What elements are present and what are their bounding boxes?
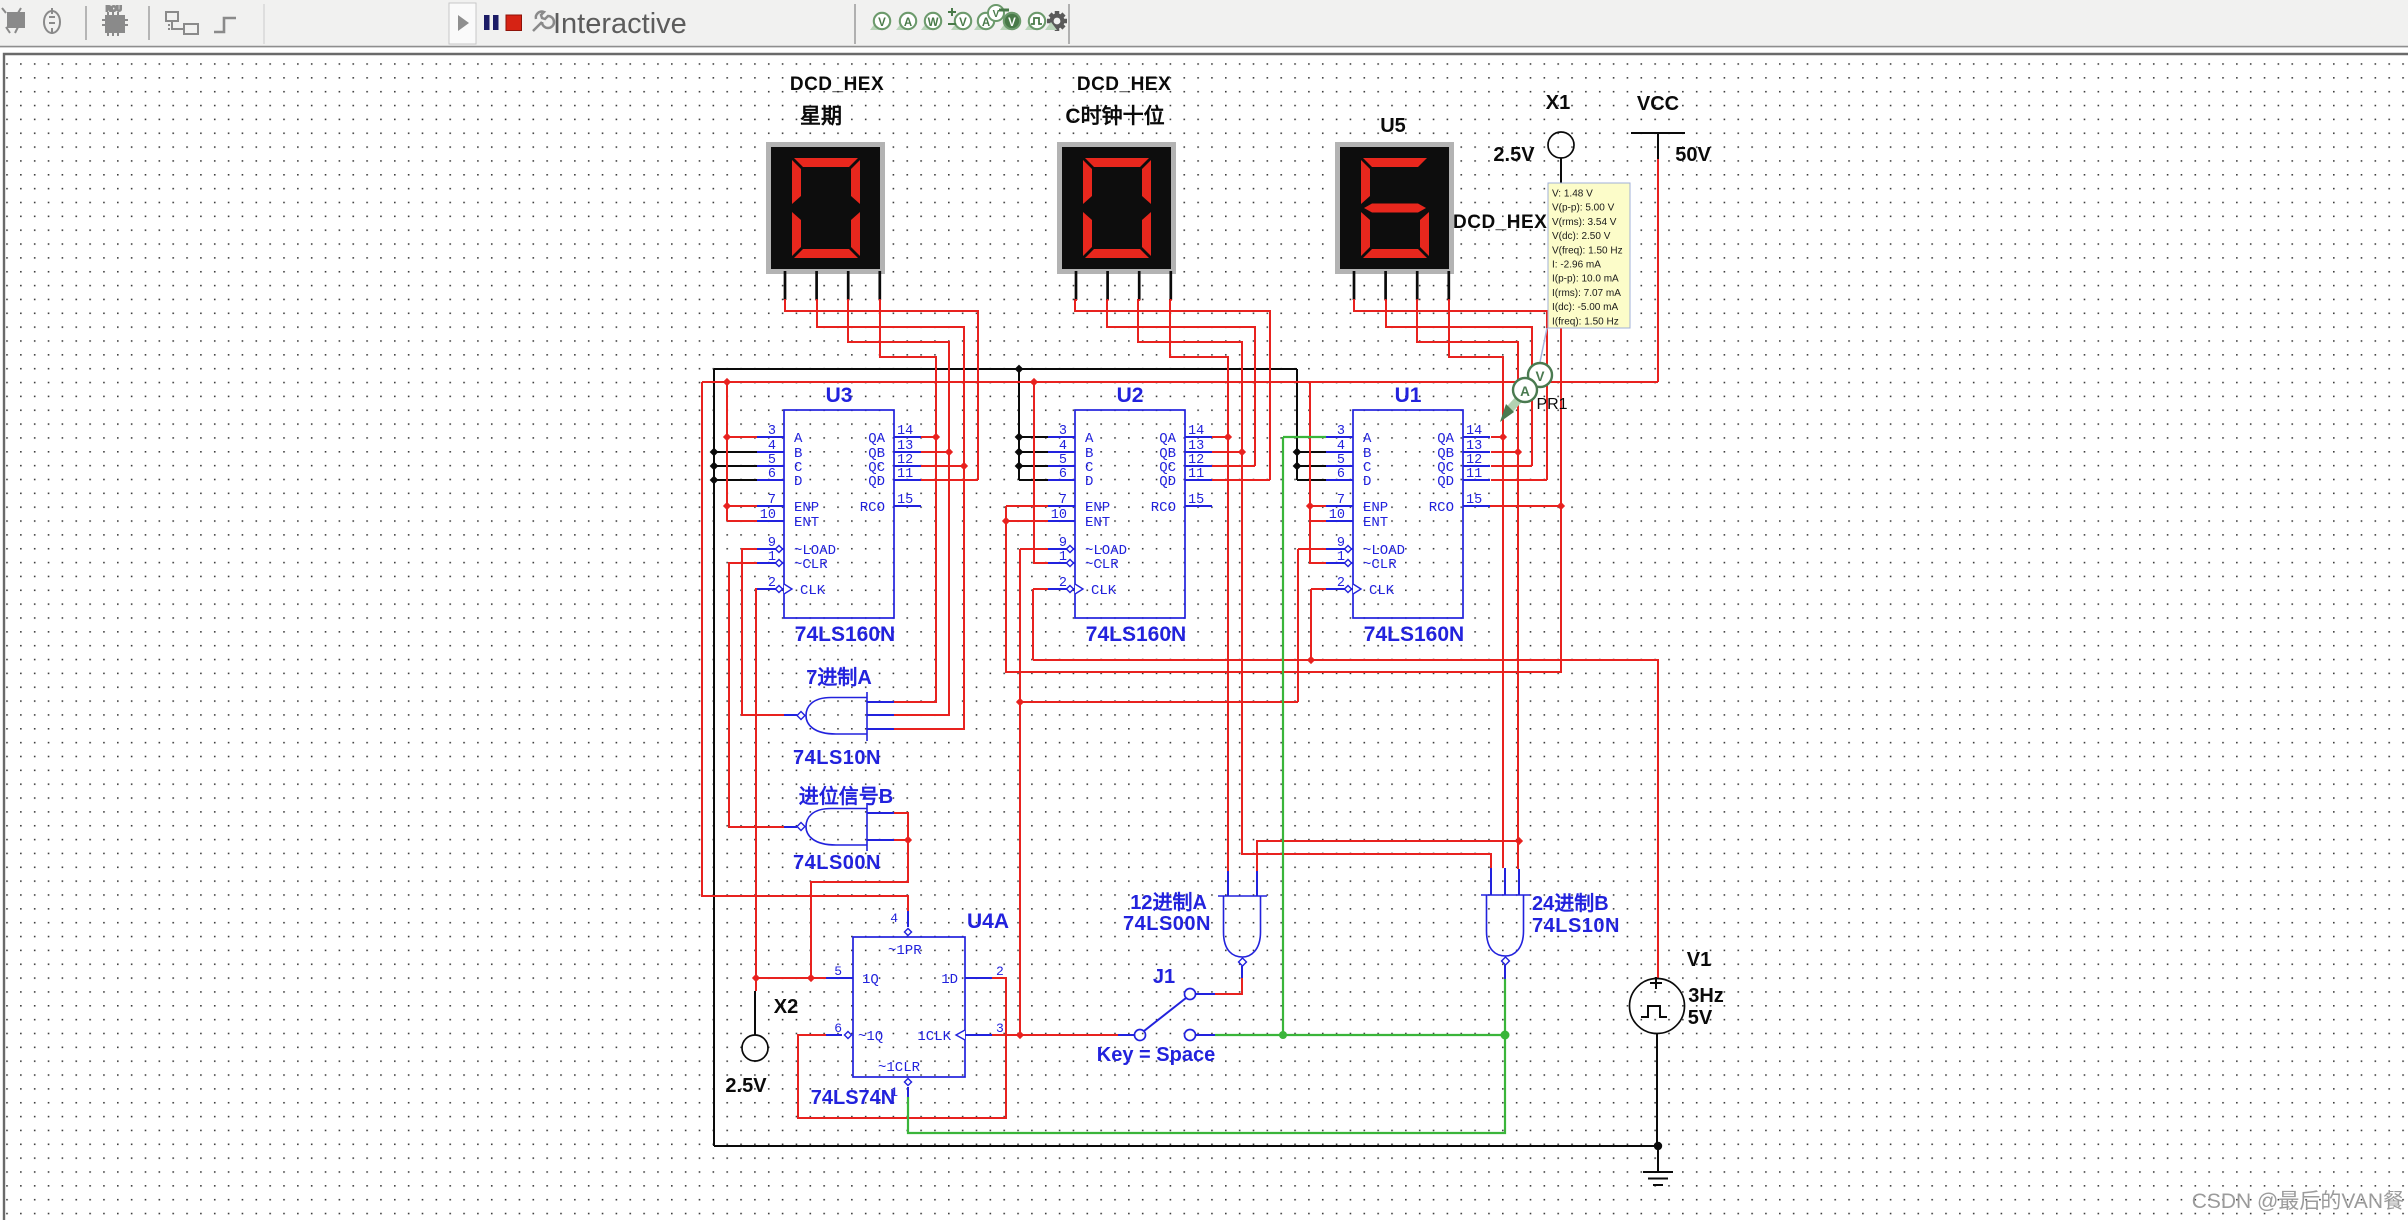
toolbar icon: place diode	[44, 8, 60, 34]
probe icon -V	[1000, 22, 1012, 30]
settings gear	[1047, 11, 1067, 31]
svg-text:5V: 5V	[1688, 1007, 1713, 1029]
svg-text:I(freq): 1.50 Hz: I(freq): 1.50 Hz	[1552, 316, 1619, 327]
wire: U2 ENP ENT to U1 RCO	[1006, 506, 1561, 672]
display U7 clock tens digit	[1057, 142, 1176, 300]
svg-text:4: 4	[890, 911, 898, 926]
svg-text:V: V	[993, 9, 1000, 20]
svg-text:X1: X1	[1546, 92, 1570, 114]
source V1 3Hz 5V	[1630, 979, 1685, 1034]
display pin tails	[785, 299, 1449, 301]
svg-text:W: W	[928, 17, 939, 29]
wire: black bus top horizontal	[714, 368, 1297, 370]
wire: U1 B C D black stubs	[1297, 369, 1326, 480]
svg-text:U3: U3	[826, 384, 853, 407]
svg-text:50V: 50V	[1675, 144, 1711, 166]
wire: U3 ~CLR from gate B output	[729, 563, 784, 827]
svg-text:V: 1.48 V: V: 1.48 V	[1552, 189, 1593, 200]
toolbar separator	[85, 6, 87, 40]
svg-text:J1: J1	[1153, 966, 1175, 988]
wire: U2 A-D black stubs	[1019, 369, 1048, 480]
svg-text:74LS00N: 74LS00N	[793, 852, 881, 874]
svg-text:74LS10N: 74LS10N	[793, 747, 881, 769]
svg-text:~1CLR: ~1CLR	[878, 1060, 921, 1076]
svg-text:~1Q: ~1Q	[858, 1029, 883, 1045]
run button	[449, 3, 476, 44]
svg-text:3: 3	[996, 1021, 1004, 1036]
probe icon W	[921, 22, 933, 30]
svg-text:I: -2.96 mA: I: -2.96 mA	[1552, 260, 1601, 271]
svg-text:U4A: U4A	[967, 910, 1009, 933]
wire: 1Q line to X2 and U4A pin5	[756, 978, 826, 991]
toolbar icon: place chip	[102, 6, 128, 36]
svg-text:2.5V: 2.5V	[1493, 144, 1535, 166]
wire: U2 Q pin extensions	[1212, 437, 1270, 480]
svg-text:1CLK: 1CLK	[917, 1029, 951, 1045]
toolbar background	[0, 0, 2408, 46]
svg-text:A: A	[982, 17, 990, 29]
wire: U2 QB down to 24B gate left input	[1242, 452, 1491, 868]
svg-text:DCD_HEX: DCD_HEX	[1453, 212, 1547, 233]
toolbar panel edge	[263, 4, 265, 44]
display U5 digit	[1335, 142, 1454, 300]
svg-text:5: 5	[834, 964, 842, 979]
probe X1	[1560, 158, 1562, 183]
svg-text:U2: U2	[1117, 384, 1144, 407]
svg-text:V: V	[959, 17, 967, 29]
gate A1 74LS10N 3-input NAND	[784, 692, 894, 741]
wire: display1 staircase to U3 outputs	[785, 299, 978, 480]
wire: clock line to V1	[1033, 660, 1658, 978]
gate A2 74LS00N 12进制	[1218, 871, 1267, 978]
svg-text:CSDN @最后的VAN餐: CSDN @最后的VAN餐	[2192, 1190, 2404, 1213]
svg-text:2.5V: 2.5V	[725, 1075, 767, 1097]
svg-text:U1: U1	[1395, 384, 1422, 407]
wire: U1 Q pin extensions	[1491, 437, 1547, 480]
svg-text:74LS160N: 74LS160N	[1364, 623, 1464, 646]
svg-text:6: 6	[834, 1021, 842, 1036]
wire: green J1 output line	[1215, 1034, 1505, 1036]
wire: 12A output to J1 top contact	[1215, 978, 1242, 994]
gate B1 74LS00N 2-input NAND	[784, 803, 894, 851]
svg-text:3Hz: 3Hz	[1688, 985, 1724, 1007]
junction black dots	[1015, 365, 1024, 374]
svg-text:V: V	[878, 17, 886, 29]
wire: black left vertical to ground	[713, 369, 715, 1146]
wire: U1 CLK to clock line	[1311, 589, 1326, 660]
wire: gate B inputs tie to 1Q	[811, 813, 908, 978]
wire: U2 ~CLR to rail	[1034, 382, 1048, 563]
wire: U1 QB down to 24B right input	[1517, 452, 1519, 869]
probe PR1	[1540, 328, 1547, 362]
wire: U1 A green stub	[1283, 437, 1326, 1035]
wire: VCC drop from symbol	[1657, 159, 1659, 382]
toolbar separator	[854, 4, 856, 44]
svg-text:V1: V1	[1687, 949, 1711, 971]
svg-text:I(dc): -5.00 mA: I(dc): -5.00 mA	[1552, 302, 1618, 313]
wire: rail left drop to U4A ~1PR	[702, 382, 908, 911]
stop button	[506, 15, 522, 31]
counter U3 74LS160N	[757, 384, 921, 646]
wire: U3 ~LOAD from gate A output	[742, 549, 784, 715]
svg-text:I(rms): 7.07 mA: I(rms): 7.07 mA	[1552, 288, 1621, 299]
svg-text:Interactive: Interactive	[553, 8, 687, 40]
power VCC symbol	[1631, 133, 1685, 159]
wire: J1 common feed from U4A 1CLK	[992, 1034, 1118, 1036]
ground symbol	[1654, 1142, 1662, 1150]
svg-text:V: V	[1535, 369, 1544, 384]
svg-text:A: A	[1520, 384, 1530, 399]
svg-text:~1PR: ~1PR	[888, 943, 922, 959]
wrench icon	[533, 12, 554, 31]
toolbar icon: hierarchy	[166, 12, 198, 34]
wire: U1 RCO to X1 junction	[1490, 183, 1561, 506]
svg-text:2: 2	[996, 964, 1004, 979]
probe icon pulse	[1025, 22, 1037, 30]
svg-text:ROU: ROU	[106, 6, 122, 13]
wire: U4A 1D to ~1Q loop	[798, 978, 1006, 1118]
svg-text:DCD_HEX: DCD_HEX	[790, 74, 884, 95]
probe icon AV	[974, 22, 986, 30]
svg-text:V: V	[1008, 17, 1016, 29]
svg-text:V(rms): 3.54 V: V(rms): 3.54 V	[1552, 217, 1617, 228]
svg-text:V(p-p): 5.00 V: V(p-p): 5.00 V	[1552, 203, 1615, 214]
svg-text:VCC: VCC	[1637, 93, 1679, 115]
display U6 week digit	[766, 142, 885, 300]
wire: display3 staircase to U1 outputs	[1354, 299, 1547, 480]
svg-text:Key = Space: Key = Space	[1097, 1044, 1215, 1066]
flip-flop U4A 74LS74N	[826, 911, 1004, 1100]
counter U1 74LS160N	[1326, 384, 1490, 646]
wire: U3 Q pin extensions	[921, 437, 978, 480]
svg-text:7进制A: 7进制A	[806, 666, 872, 689]
svg-text:C时钟十位: C时钟十位	[1065, 104, 1164, 128]
svg-text:DCD_HEX: DCD_HEX	[1077, 74, 1171, 95]
red junction dots	[723, 378, 731, 386]
probe icon +V	[951, 22, 963, 30]
svg-text:U5: U5	[1380, 115, 1406, 137]
svg-text:1D: 1D	[941, 972, 958, 988]
svg-text:进位信号B: 进位信号B	[799, 784, 893, 808]
svg-text:I(p-p): 10.0 mA: I(p-p): 10.0 mA	[1552, 274, 1619, 285]
svg-text:1Q: 1Q	[862, 972, 879, 988]
wire: U2 CLK to V1 clock line	[1033, 589, 1048, 660]
wire: ~LOAD tie line U2-U1	[1020, 701, 1298, 703]
toolbar icon: place source	[2, 8, 24, 33]
svg-text:74LS10N: 74LS10N	[1532, 915, 1620, 937]
toolbar separator	[148, 6, 150, 40]
svg-text:74LS74N: 74LS74N	[811, 1087, 896, 1109]
probe X2	[754, 991, 756, 1035]
counter U2 74LS160N	[1048, 384, 1212, 646]
svg-text:74LS160N: 74LS160N	[795, 623, 895, 646]
wire: U2 QA down to 12A gate left input	[1227, 437, 1229, 871]
wire: U3 CLK from U4A 1Q	[756, 589, 757, 978]
wire: 12A right input to 24B right input	[1257, 841, 1519, 871]
svg-text:星期: 星期	[800, 105, 842, 128]
probe icon V	[870, 22, 882, 30]
wire: U3 A/ENP/ENT feed	[727, 382, 757, 521]
wire: U2 ~LOAD long vertical	[1020, 549, 1048, 1035]
green junction dots	[1279, 1031, 1287, 1039]
gate B2 74LS10N 24进制	[1481, 868, 1530, 979]
svg-text:A: A	[904, 17, 912, 29]
wire: U1 ~LOAD vertical	[1298, 549, 1326, 702]
svg-text:24进制B: 24进制B	[1532, 892, 1609, 915]
toolbar icon: step	[214, 18, 236, 32]
wire: gate A inputs from U3 QA QB QC	[894, 437, 964, 729]
svg-text:V(freq): 1.50 Hz: V(freq): 1.50 Hz	[1552, 245, 1623, 256]
svg-text:74LS160N: 74LS160N	[1086, 623, 1186, 646]
toolbar separator	[1068, 4, 1070, 44]
svg-text:V(dc): 2.50 V: V(dc): 2.50 V	[1552, 231, 1611, 242]
wire: ground bottom horizontal	[714, 1145, 1658, 1147]
svg-text:PR1: PR1	[1536, 396, 1567, 413]
wire: U1 QA down to 24B middle input	[1502, 437, 1504, 868]
pause button	[484, 15, 499, 30]
svg-text:X2: X2	[774, 996, 798, 1018]
probe X1 readout box	[1548, 183, 1630, 328]
wire: VCC rail	[702, 381, 1658, 383]
svg-text:74LS00N: 74LS00N	[1123, 913, 1211, 935]
wire: U1 ENP ENT ~CLR from rail	[1310, 382, 1326, 563]
wire: 24B output down	[908, 979, 1505, 1133]
switch J1	[1118, 989, 1215, 1041]
svg-text:12进制A: 12进制A	[1130, 891, 1207, 914]
wire: display2 staircase to U2 outputs	[1075, 299, 1270, 480]
wire: U3 B C D black stubs	[714, 452, 757, 480]
probe icon A	[896, 22, 908, 30]
wire: U4A ~1PR red stub	[907, 896, 909, 911]
